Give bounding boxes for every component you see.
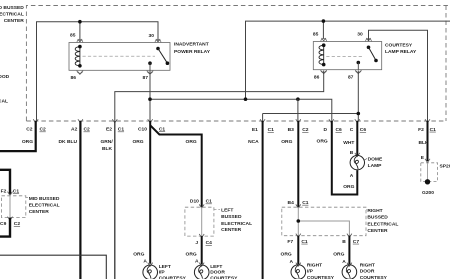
relay U2 contact 87 (357, 61, 361, 65)
svg-text:30: 30 (357, 31, 363, 37)
svg-text:85: 85 (313, 31, 319, 37)
svg-text:LAMP: LAMP (368, 163, 383, 169)
svg-text:CENTER: CENTER (4, 18, 25, 24)
wire J C4 to left door lamp (201, 236, 203, 264)
svg-text:COURTESY: COURTESY (210, 276, 238, 279)
svg-text:BUSSED: BUSSED (367, 215, 388, 221)
svg-text:A: A (290, 259, 294, 265)
left IP courtesy lamp label (159, 264, 187, 279)
chevron J exit (199, 234, 204, 238)
svg-text:C1: C1 (206, 199, 213, 205)
svg-text:86: 86 (314, 75, 320, 81)
mid EC heavy wire out to left (0, 218, 10, 237)
wire E1 NCA to bottom (262, 121, 264, 279)
fwd bussed electrical center dashed box (26, 6, 450, 122)
svg-text:C6: C6 (336, 127, 343, 133)
bus wire right (feeds line B riser and courtesy 85) (246, 21, 450, 99)
svg-text:BUSSED: BUSSED (221, 214, 242, 220)
wire B3 ORG to right EC (297, 121, 299, 207)
relay U2 pin 86 notch (321, 70, 327, 73)
chevron mid EC exit (8, 217, 13, 221)
wire lower left loop (0, 255, 106, 279)
svg-text:C2: C2 (14, 221, 21, 227)
junction line B at bus riser (244, 97, 248, 101)
splice pack SP205 box (421, 163, 438, 182)
relay U2 pin 87 notch (355, 70, 361, 73)
svg-text:SP205: SP205 (440, 164, 450, 170)
wire B C7 to right door lamp (348, 236, 350, 265)
svg-text:C1: C1 (301, 239, 308, 245)
svg-text:F2: F2 (418, 127, 424, 133)
junction at courtesy 85 riser (322, 19, 326, 23)
wire E2 GRN/BLK to bottom (114, 121, 116, 279)
svg-text:ORG: ORG (132, 139, 143, 145)
svg-text:C2: C2 (302, 127, 309, 133)
svg-text:ORG: ORG (186, 251, 197, 257)
svg-text:ORG: ORG (133, 251, 144, 257)
svg-text:J: J (195, 240, 198, 246)
left EC label leader (214, 208, 220, 210)
svg-text:A: A (195, 259, 199, 265)
svg-text:C9: C9 (0, 221, 7, 227)
svg-text:A: A (350, 173, 354, 179)
relay U2 pin chevrons (322, 38, 371, 74)
svg-text:DOOR: DOOR (210, 270, 225, 276)
svg-text:UNDERHOOD: UNDERHOOD (0, 74, 10, 80)
relay U2 pin 30 notch (366, 39, 372, 42)
relay U2 linkage dashed (326, 55, 364, 57)
right IP courtesy lamp (291, 265, 306, 279)
svg-text:C1: C1 (268, 127, 275, 133)
svg-text:C7: C7 (353, 239, 360, 245)
svg-text:CENTER: CENTER (221, 227, 242, 233)
relay U1 contact 87 (148, 61, 152, 65)
dome lamp label (368, 156, 383, 169)
inadvertant power relay U1 box (69, 43, 170, 71)
connector B/C7 (342, 239, 359, 245)
svg-text:RIGHT: RIGHT (307, 262, 322, 268)
svg-text:C: C (350, 127, 354, 133)
wire D C6 ORG to dome lamp A (332, 121, 358, 195)
right IP courtesy lamp label (307, 262, 335, 279)
svg-text:D: D (323, 127, 327, 133)
svg-text:85: 85 (70, 33, 76, 39)
chevron D10 entry (199, 204, 204, 208)
svg-text:C1: C1 (302, 200, 309, 206)
svg-text:LEFT: LEFT (221, 208, 233, 214)
connector row labels (26, 126, 436, 133)
wire B3 riser (297, 99, 299, 121)
svg-text:C1: C1 (118, 127, 125, 133)
svg-text:ORG: ORG (317, 139, 328, 145)
junction line B at 87 wire (148, 97, 152, 101)
left bussed electrical center connector D10/C1 (190, 199, 212, 205)
relay U1 pin chevrons (78, 39, 161, 74)
svg-text:A: A (342, 259, 346, 265)
chevron B4 entry (296, 204, 301, 208)
relay U1 pin 86 notch (77, 70, 83, 73)
mid bussed electrical center box (2, 196, 26, 218)
right EC label leader (366, 209, 367, 211)
chevron F7 exit (296, 234, 301, 238)
relay U1 pin 85 notch (77, 40, 83, 43)
dome lamp chevron (355, 153, 360, 157)
relay U1 coil (75, 47, 80, 66)
svg-text:E1: E1 (252, 127, 258, 133)
svg-text:C1: C1 (159, 126, 166, 132)
wires inside right EC (297, 207, 299, 236)
svg-text:I/P: I/P (307, 269, 314, 275)
wire inside left EC (201, 207, 203, 236)
courtesy lamp relay U2 box (313, 42, 381, 70)
svg-text:30: 30 (149, 33, 155, 39)
svg-text:C2: C2 (40, 127, 47, 133)
relay U1 pin 87 notch (147, 70, 153, 73)
svg-text:87: 87 (348, 75, 354, 81)
relay U2 pin 85 notch (321, 39, 327, 42)
relay U2 coil (319, 45, 324, 64)
svg-text:A: A (143, 259, 147, 265)
svg-text:ELECTRICAL: ELECTRICAL (367, 221, 398, 227)
relay U1 pin 30 notch (155, 40, 161, 43)
wire F7 to right IP lamp (297, 236, 299, 265)
mid bussed electrical center heavy wire in (0, 170, 10, 195)
junction line B at B3 riser (296, 97, 300, 101)
svg-text:F2: F2 (1, 188, 7, 194)
wire C10 ORG with split (149, 121, 151, 264)
svg-text:NCA: NCA (248, 139, 259, 145)
wire C2 ORG exits left (0, 121, 36, 151)
svg-text:B3: B3 (288, 127, 295, 133)
wire inside mid EC (9, 196, 11, 218)
left door courtesy lamp label (210, 264, 238, 279)
wire U2 pin 30 to F2 (369, 30, 428, 121)
connector J/C4 (195, 240, 212, 246)
connector C9/C2 mid EC (0, 221, 20, 227)
bus wire left (feeds C2, 85, 30) (37, 22, 159, 121)
svg-text:WHT: WHT (343, 140, 354, 146)
svg-text:ELECTRICAL: ELECTRICAL (0, 98, 8, 104)
svg-text:POWER RELAY: POWER RELAY (174, 49, 211, 55)
svg-text:COURTESY: COURTESY (307, 275, 335, 279)
wire line B: U1 pin 87 down to C10 with branch bus (149, 71, 151, 122)
svg-text:RIGHT: RIGHT (360, 262, 375, 268)
ground G200 dot (425, 179, 430, 184)
chevron right door lamp (347, 263, 352, 267)
right door courtesy lamp label (360, 262, 388, 279)
svg-text:LAMP RELAY: LAMP RELAY (385, 49, 417, 55)
junction line C at 87 wire (357, 112, 361, 116)
svg-text:C10: C10 (138, 126, 147, 132)
svg-text:COURTESY: COURTESY (360, 275, 388, 279)
svg-text:A2: A2 (71, 127, 78, 133)
mid EC label leader (26, 197, 28, 199)
wire C C6 WHT to dome lamp B (356, 121, 358, 155)
wire A2 DK BLU to bottom (79, 121, 81, 279)
svg-text:LEFT: LEFT (210, 264, 222, 270)
svg-text:COURTESY: COURTESY (385, 43, 413, 49)
left bussed electrical center box (185, 207, 214, 236)
svg-text:ORG: ORG (281, 139, 292, 145)
svg-text:MID BUSSED: MID BUSSED (0, 5, 24, 11)
svg-text:B4: B4 (288, 200, 295, 206)
svg-text:ORG: ORG (333, 251, 344, 257)
relay U1 switch contact 30 (156, 47, 160, 51)
svg-text:ORG: ORG (186, 139, 197, 145)
dome lamp (350, 155, 364, 169)
svg-text:ELECTRICAL: ELECTRICAL (0, 11, 24, 17)
wire color labels row (22, 139, 429, 152)
svg-text:E2: E2 (106, 127, 112, 133)
svg-text:ELECTRICAL: ELECTRICAL (221, 221, 252, 227)
svg-text:DOOR: DOOR (360, 269, 375, 275)
svg-text:LEFT: LEFT (159, 264, 171, 270)
svg-text:B: B (342, 239, 346, 245)
svg-text:GRN/: GRN/ (100, 139, 113, 145)
wire inside splice (427, 163, 429, 180)
chevron right IP lamp (296, 263, 301, 267)
svg-text:COURTESY: COURTESY (159, 276, 187, 279)
svg-text:CENTER: CENTER (367, 228, 388, 234)
svg-text:G200: G200 (422, 190, 434, 196)
svg-text:B: B (350, 150, 354, 156)
splice entry chevron (425, 159, 430, 163)
connector F2/C1 mid EC (1, 188, 20, 194)
chevron mid EC entry (8, 192, 13, 196)
dome lamp leader (365, 159, 368, 161)
svg-text:C1: C1 (13, 188, 20, 194)
svg-text:BLK: BLK (102, 146, 113, 152)
junction inside right EC (297, 219, 301, 223)
svg-text:D10: D10 (190, 199, 199, 205)
connector row chevrons (33, 119, 430, 123)
left IP courtesy lamp (143, 265, 158, 279)
svg-text:87: 87 (143, 75, 149, 81)
svg-text:C6: C6 (360, 127, 367, 133)
relay U1 switch arm (158, 49, 167, 64)
svg-text:INADVERTANT: INADVERTANT (174, 42, 209, 48)
relay U1 linkage dashed (83, 55, 156, 57)
svg-text:MID BUSSED: MID BUSSED (29, 196, 60, 202)
chevron left IP lamp (148, 263, 153, 267)
svg-text:C2: C2 (84, 127, 91, 133)
svg-text:C4: C4 (206, 240, 213, 246)
connector F7/C1 (287, 239, 308, 245)
connector B4/C1 (288, 200, 309, 206)
relay U2 switch arm (369, 47, 377, 60)
right bussed electrical center label (367, 208, 398, 234)
svg-text:DOME: DOME (368, 156, 383, 162)
svg-text:RIGHT: RIGHT (367, 208, 382, 214)
svg-text:C1: C1 (430, 127, 437, 133)
left bussed electrical center label (221, 208, 252, 234)
junction at 85 riser (78, 20, 82, 24)
relay U2 switch contact 30 (367, 46, 371, 50)
svg-text:ORG: ORG (343, 184, 354, 190)
svg-text:86: 86 (71, 75, 77, 81)
svg-text:CENTER: CENTER (29, 209, 50, 215)
fwd bussed electrical center label (clipped at left edge) (0, 5, 24, 24)
wire F2 BLK to splice (427, 121, 429, 161)
left door courtesy lamp (194, 265, 209, 279)
svg-text:DK BLU: DK BLU (59, 139, 78, 145)
svg-text:F7: F7 (287, 239, 293, 245)
right bussed electrical center box (282, 207, 366, 236)
right door courtesy lamp (342, 265, 357, 279)
svg-text:I/P: I/P (159, 270, 166, 276)
svg-text:ELECTRICAL: ELECTRICAL (29, 203, 60, 209)
svg-text:ORG: ORG (22, 139, 33, 145)
svg-text:ORG: ORG (281, 251, 292, 257)
mid bussed electrical center label (29, 196, 60, 215)
chevron B exit (347, 234, 352, 238)
wire line C: U2 pin 87 to E1 (357, 71, 359, 122)
chevron left door lamp (199, 263, 204, 267)
wire line A: U2 pin 86 to E2 (115, 71, 324, 122)
svg-text:C2: C2 (26, 127, 33, 133)
